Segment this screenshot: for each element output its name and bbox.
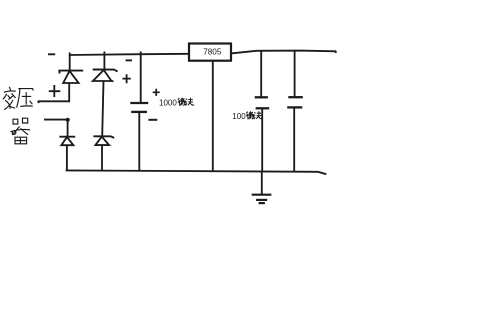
wire top rail from bridge to 7805 input [70, 53, 189, 56]
plus label of C1 [153, 89, 160, 96]
diode D3 triangle [61, 137, 73, 145]
minus label at AC top-left [48, 53, 55, 55]
handwritten transformer label: char ya [17, 89, 34, 108]
svg-text:100: 100 [232, 112, 246, 121]
ground bar 3 [259, 202, 265, 204]
capacitor C2 top lead [260, 51, 262, 98]
diode D2 triangle [93, 70, 114, 81]
wire D2 anode down to D4 [102, 81, 103, 136]
ground bar 1 [252, 194, 272, 196]
diode D2 branch wire from top rail [103, 52, 105, 70]
svg-text:7805: 7805 [203, 47, 222, 56]
diode D1 branch wire from top rail [69, 55, 71, 71]
handwritten transformer label: char bian [3, 87, 16, 110]
capacitor C3 bottom lead [293, 107, 295, 171]
wire bottom rail [66, 170, 327, 174]
ground bar 2 [256, 199, 267, 201]
wire stub2 to D3 [67, 120, 69, 137]
diode D4 triangle [95, 137, 109, 145]
wire 7805 ground pin to bottom rail [212, 61, 214, 171]
glyph wei (micro) [178, 98, 186, 106]
glyph fa (farad) [254, 111, 262, 119]
wire output rail from 7805 [231, 51, 336, 54]
capacitor C2 bottom lead [261, 108, 263, 170]
IC U1 7805 regulator box [189, 44, 231, 61]
svg-text:1000: 1000 [159, 98, 177, 107]
node junction stub2 / D3 [66, 118, 70, 122]
minus label near D2 [126, 59, 132, 61]
wire D4 anode to bottom rail [101, 145, 103, 171]
wire D3 anode to bottom rail [66, 145, 68, 170]
glyph fa (farad) [185, 98, 193, 106]
capacitor C1 bottom plate [131, 111, 147, 113]
diode D4 cathode bar [93, 136, 114, 138]
plus label at AC input [49, 85, 61, 97]
capacitor C2 top plate [255, 96, 268, 98]
capacitor C3 top lead [294, 51, 296, 97]
diode D1 triangle [63, 71, 78, 83]
capacitor C3 top plate [288, 96, 303, 98]
plus label near D2 [123, 74, 131, 83]
capacitor C1 top lead from rail [140, 52, 142, 104]
wire from D1 anode to + input stub [39, 83, 70, 103]
capacitor C3 bottom plate [287, 106, 302, 108]
glyph wei (micro) [246, 111, 254, 119]
diode D1 cathode bar [59, 71, 83, 74]
ground stem [261, 171, 263, 195]
diode D3 cathode bar [59, 136, 75, 138]
minus label of C1 [148, 119, 157, 121]
capacitor C1 bottom lead to bottom rail [138, 112, 140, 170]
diode D2 cathode bar [93, 70, 118, 72]
wire AC stub 2 [44, 119, 68, 121]
handwritten transformer label: char qi [10, 118, 30, 144]
capacitor C1 top plate [130, 102, 148, 104]
capacitor C2 bottom plate [256, 107, 270, 109]
